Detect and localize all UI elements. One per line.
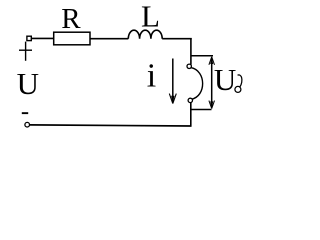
terminal T2 (minus input, open circle) (25, 122, 30, 127)
arc discharge curve (191, 68, 203, 100)
wire bottom rail (29, 125, 191, 126)
wire top stub (to voltage arrow) (191, 55, 213, 57)
wire top-left (terminal to resistor) (31, 37, 53, 39)
voltage arrow Ud (double headed) (209, 57, 215, 109)
svg-text:L: L (141, 0, 160, 34)
label subscript delta (235, 75, 242, 93)
svg-text:R: R (61, 3, 81, 35)
wire inductor to right corner (162, 38, 192, 40)
svg-text:i: i (147, 58, 156, 95)
inductor L (three arcs) (128, 30, 162, 39)
terminal T1 (plus input, open square) (27, 36, 31, 40)
svg-text:U: U (17, 66, 39, 101)
wire bottom stub (to voltage arrow) (191, 109, 212, 111)
wire bottom vertical (electrode to bottom rail) (190, 103, 192, 127)
plus sign (19, 42, 32, 61)
current arrow (downward) (169, 59, 176, 104)
wire right vertical (down to top electrode) (190, 38, 192, 65)
electrode bottom (open circle) (188, 98, 192, 102)
wire resistor to inductor (90, 38, 128, 40)
electrode top (open circle) (187, 64, 191, 68)
minus sign (22, 112, 28, 114)
svg-text:U: U (214, 62, 236, 97)
resistor R (box) (54, 32, 90, 45)
